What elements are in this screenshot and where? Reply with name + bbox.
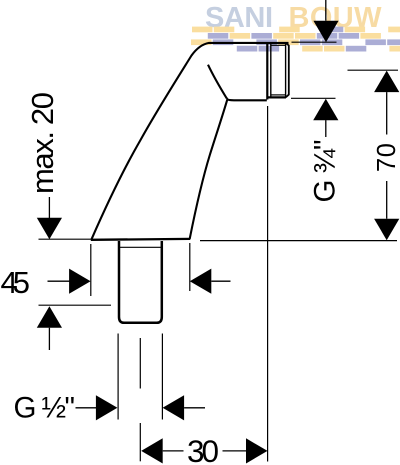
centerline shank axis lower dash — [139, 423, 141, 461]
leader tail G1/2 right — [184, 407, 205, 409]
ref line mounting plane left — [39, 238, 92, 240]
leader line 30 left — [163, 450, 184, 452]
ref line spout axis 70 — [348, 69, 399, 71]
svg-text:30: 30 — [187, 433, 219, 465]
arrow down 70 — [374, 219, 399, 241]
arrow up max20 — [37, 306, 62, 328]
axis line outlet face — [267, 106, 269, 462]
leader tail max20 lower — [48, 328, 50, 350]
ext line 45 left — [90, 244, 92, 296]
arrow up G3/4 — [313, 99, 338, 121]
centerline shank axis upper dash — [139, 338, 141, 389]
shank G1/2 outline — [119, 241, 162, 323]
dim line 70 upper — [386, 92, 388, 134]
arrow right 30 — [246, 438, 268, 463]
outlet bottom edge — [267, 96, 286, 98]
watermark brick band — [191, 27, 400, 52]
outlet thread root line top — [271, 44, 286, 46]
spout underside and right outline — [190, 99, 267, 239]
arrow right G1/2 — [96, 395, 118, 420]
svg-text:45: 45 — [1, 265, 31, 300]
neck crease line — [208, 65, 227, 99]
outlet thread root line bottom — [271, 94, 286, 96]
ext line G1/2 right — [161, 334, 163, 420]
base edge — [91, 238, 190, 241]
svg-text:max. 20: max. 20 — [25, 92, 60, 194]
dim line 70 lower — [386, 181, 388, 219]
ext line G1/2 left — [117, 334, 119, 420]
arrow left 30 — [141, 438, 163, 463]
dim tail G3/4 top — [325, 0, 327, 21]
leader line 30 right — [223, 450, 247, 452]
arrow down G3/4 — [313, 21, 338, 43]
ref line G3/4 top — [292, 41, 337, 43]
arrow up 70 — [374, 71, 399, 93]
arrow right 45 — [69, 269, 91, 294]
ext line 45 right — [189, 243, 191, 291]
ref line mounting plane right — [200, 240, 397, 242]
svg-text:G ½": G ½" — [14, 392, 76, 425]
arrow down max20 — [37, 218, 62, 240]
ref line max20 lower — [39, 304, 112, 306]
tap body outline — [92, 43, 289, 239]
shank thread line — [120, 246, 161, 248]
outlet thread G3/4 flange line — [266, 43, 268, 100]
leader line max20 — [48, 197, 50, 218]
leader line G1/2 — [76, 407, 97, 409]
arrow left G1/2 — [163, 395, 185, 420]
arrow left 45 — [190, 269, 212, 294]
svg-text:G ¾": G ¾" — [309, 140, 342, 203]
outlet thread end line — [285, 43, 287, 97]
dim tail G3/4 bottom — [325, 120, 327, 137]
outlet thread start line — [270, 43, 272, 97]
svg-text:70: 70 — [373, 143, 400, 172]
ref line G3/4 bottom — [291, 97, 336, 99]
outlet right end with chamfer — [286, 43, 289, 97]
leader line 45 — [48, 280, 70, 282]
leader tail 45 right — [211, 280, 230, 282]
